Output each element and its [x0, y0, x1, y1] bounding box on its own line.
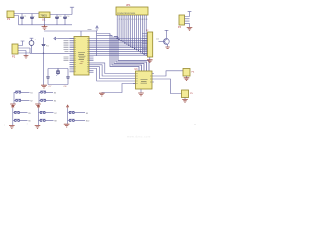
svg-text:1 2 3 4 5 6 7 8 9 0 1 2 3 4 5: 1 2 3 4 5 6 7 8 9 0 1 2 3 4 5 6 — [117, 13, 136, 15]
connector P2 — [12, 44, 18, 59]
svg-text:S5: S5 — [28, 113, 31, 115]
capacitor C5 (reset, electrolytic) — [29, 38, 36, 53]
svg-text:C7: C7 — [49, 86, 53, 88]
wire J2 gnd stem — [149, 57, 151, 60]
svg-text:P2: P2 — [12, 55, 16, 59]
svg-text:P5: P5 — [190, 93, 193, 95]
wire P3 gnd stem — [189, 23, 191, 27]
wire AVCC long horizontal — [44, 30, 97, 32]
svg-text:C3: C3 — [59, 16, 63, 18]
svg-text:+: + — [35, 39, 37, 41]
wire J2 pins — [142, 34, 148, 54]
svg-text:1: 1 — [27, 124, 29, 126]
ground GND2 — [41, 85, 47, 88]
ground GND9 — [187, 27, 193, 30]
wire S7 S8 column — [38, 108, 40, 125]
MCU U2 — [74, 37, 89, 76]
wire bus feed to U3 top — [110, 34, 149, 72]
wire JP1 bus verticals — [117, 15, 146, 55]
ground GND5 — [99, 93, 105, 97]
ground GND12 — [9, 126, 15, 129]
power arrow K1 — [12, 105, 15, 108]
button S2 — [14, 99, 34, 103]
svg-text:www.dzsc.com: www.dzsc.com — [127, 135, 151, 139]
ground GND7 — [182, 99, 188, 102]
capacitor C8 — [66, 77, 70, 78]
connector P5 — [182, 90, 194, 98]
svg-text:S8: S8 — [54, 121, 57, 123]
wire U2 right pin stubs — [89, 39, 94, 73]
svg-text:Q1: Q1 — [156, 39, 160, 41]
svg-text:P4: P4 — [192, 72, 195, 74]
wire U2 vcc top pin — [80, 31, 82, 37]
svg-text:S1: S1 — [30, 92, 33, 94]
wire U1 gnd pin — [44, 18, 46, 25]
svg-text:C8: C8 — [64, 86, 68, 88]
wire +5V rail — [50, 14, 72, 16]
node U2 left pin net labels — [64, 40, 69, 60]
wire P2 pin3 drop — [25, 51, 27, 56]
svg-text:C1: C1 — [24, 16, 28, 18]
ground GND3 — [24, 56, 29, 59]
svg-text:S10: S10 — [86, 121, 90, 123]
svg-text:S2: S2 — [30, 101, 33, 103]
wire P3 pins — [185, 17, 190, 24]
power bar P2 — [21, 41, 25, 46]
button S7 — [39, 111, 58, 115]
crystal circuit frame — [48, 69, 68, 85]
wire U3 to P4 — [156, 71, 183, 76]
ground GND11 — [35, 104, 41, 107]
button S6 — [13, 119, 32, 123]
power VCC arrow mid — [96, 26, 99, 31]
power bar P3 — [188, 12, 192, 17]
svg-text:R1: R1 — [46, 46, 50, 48]
wire bus stub vertical — [97, 31, 113, 56]
wire S1 S2 column — [13, 92, 15, 103]
wire bottom gnd rail — [19, 24, 73, 26]
svg-text:JP1: JP1 — [126, 3, 131, 7]
wire S5 S6 column — [12, 108, 14, 125]
capacitor C3 — [55, 15, 62, 25]
capacitor C2 (electrolytic) — [30, 14, 36, 25]
wire RST row — [58, 38, 74, 40]
ground Q1 emitter mark — [166, 47, 170, 48]
svg-text:S4: S4 — [54, 101, 57, 103]
power VCC bar top — [70, 7, 74, 14]
ground GND10 — [10, 104, 16, 107]
connector J2 tall — [146, 30, 153, 57]
wire P2 pins — [18, 46, 30, 54]
voltage regulator U1 — [39, 12, 50, 21]
button S5 — [13, 111, 32, 115]
IC U3 — [135, 69, 153, 89]
wire main +in rail — [17, 13, 39, 15]
ground GND1 — [42, 25, 48, 30]
button S4 — [39, 99, 57, 103]
svg-text:S7: S7 — [54, 113, 57, 115]
wire XTAL row long — [30, 52, 74, 54]
node reset junction — [43, 53, 44, 54]
connector P3 — [178, 15, 185, 29]
wire S3 S4 column — [38, 92, 40, 103]
wire U2 left pin stubs — [70, 39, 75, 72]
button S1 — [14, 91, 34, 95]
svg-text:7805: 7805 — [40, 13, 47, 17]
ground GND13 — [35, 126, 41, 129]
ground GND4 — [138, 93, 144, 96]
wire U2 rows to U3 staircase — [94, 63, 132, 81]
ground GND8 — [147, 60, 153, 63]
wire P2 pin2 vertical — [29, 48, 31, 53]
svg-text:C4: C4 — [67, 16, 71, 18]
power arrow RST — [54, 37, 58, 40]
svg-text:U1: U1 — [42, 17, 46, 21]
svg-text:P1: P1 — [7, 17, 11, 21]
connector P1 — [7, 11, 14, 21]
node faint footer marks — [4, 124, 195, 139]
ground GND14 — [64, 124, 70, 127]
button S8 — [39, 119, 58, 123]
capacitor C6 on reset divider — [42, 38, 50, 86]
wire U3 left pin stubs — [132, 74, 136, 84]
svg-text:S6: S6 — [28, 121, 31, 123]
transistor Q1 — [156, 30, 169, 46]
svg-text:S9: S9 — [86, 113, 89, 115]
crystal Y1 — [56, 69, 60, 76]
power arrow K3 — [66, 105, 69, 108]
connector P4 — [183, 69, 195, 77]
button S9 — [68, 111, 89, 115]
svg-text:S3: S3 — [54, 92, 57, 94]
button S10 — [68, 119, 91, 123]
capacitor C4 — [63, 15, 70, 25]
wire P5 gnd stem — [184, 98, 186, 100]
wire U3 to P5 — [156, 79, 182, 94]
node AVCC label — [88, 28, 92, 30]
power arrow K2 — [37, 105, 40, 108]
wire U3 bottom pin — [140, 89, 142, 93]
wire U3 gnd branch left — [102, 84, 136, 93]
wire P4 gnd stem — [186, 76, 188, 78]
ground GND6 — [184, 78, 190, 81]
wire P1 pins — [14, 14, 19, 16]
wire U2 right rows to J2 across bus — [94, 39, 148, 56]
capacitor C1 — [20, 14, 27, 25]
wire U3 right pin stubs — [152, 74, 156, 83]
svg-text:+: + — [34, 16, 36, 18]
wire gnd left drop — [18, 16, 20, 25]
capacitor C7 — [46, 77, 50, 78]
button S3 — [39, 91, 57, 95]
node bus junction dots — [117, 38, 147, 56]
connector JP1 (LCD header) — [116, 3, 148, 21]
svg-text:P3: P3 — [178, 26, 182, 29]
wire S9 S10 column — [67, 108, 69, 124]
